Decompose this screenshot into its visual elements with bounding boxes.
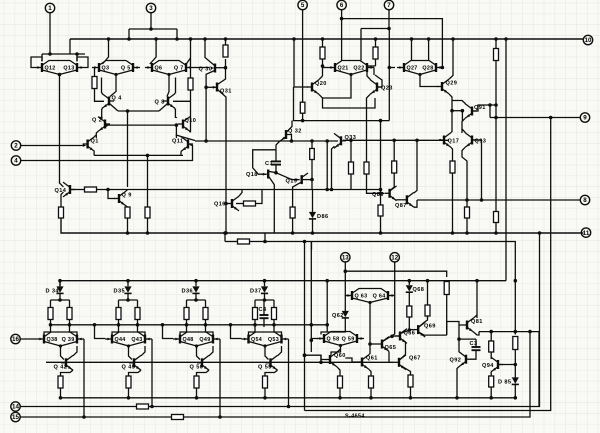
pin 7 xyxy=(384,0,393,9)
wire comp node xyxy=(459,338,476,340)
diode Q68 xyxy=(406,285,425,293)
junction R13 rail xyxy=(374,37,378,41)
wire Q2 base tie xyxy=(106,124,176,126)
resistor block3 left xyxy=(184,308,189,320)
wire C1 top xyxy=(275,150,277,161)
svg-text:Q92: Q92 xyxy=(450,357,462,363)
wire y241 line xyxy=(225,241,237,243)
resistor R4 xyxy=(85,187,97,192)
wire Q67 emitter xyxy=(400,365,411,376)
wire bus drop b2 xyxy=(95,325,106,339)
wire Q61 collector xyxy=(369,329,370,355)
transistor pair Q44 Q43 xyxy=(105,332,152,348)
svg-text:Q22: Q22 xyxy=(353,65,364,71)
junction bus r4b xyxy=(272,323,276,327)
wire R12 bottom xyxy=(322,59,324,66)
transistor Q87 xyxy=(395,192,414,209)
resistor R33 xyxy=(513,337,518,350)
svg-text:Q 30: Q 30 xyxy=(199,66,213,72)
junction block3 rail xyxy=(194,279,198,283)
junction Q10 base xyxy=(175,123,179,127)
wire Q16 emitter lead xyxy=(236,203,244,205)
svg-text:D 34: D 34 xyxy=(46,289,60,295)
svg-text:Q67: Q67 xyxy=(409,356,421,362)
svg-text:Q 42: Q 42 xyxy=(54,365,68,371)
wire Q8 outer xyxy=(174,108,177,118)
junction bus r4a xyxy=(253,323,257,327)
wire center tap drop xyxy=(127,111,129,187)
resistor R14 xyxy=(494,49,499,61)
wire Q16 collector xyxy=(239,190,242,197)
transistor Q4 xyxy=(102,94,122,109)
wire Q23 col link xyxy=(367,65,376,67)
wire R21 bottom xyxy=(380,216,382,233)
transistor Q19 xyxy=(286,173,313,207)
wire x506 drop xyxy=(505,39,507,281)
wire rail left drop xyxy=(69,39,71,54)
junction x380 y121 xyxy=(379,119,383,123)
junction R3 rail xyxy=(224,37,228,41)
transistor Q66 xyxy=(395,329,415,344)
junction y141 q32 xyxy=(290,139,294,143)
resistor block2 left xyxy=(116,308,121,320)
transistor pair Q27 Q28 xyxy=(397,61,443,77)
wire Q58 outer xyxy=(311,339,318,341)
svg-text:Q49: Q49 xyxy=(199,337,210,343)
wire Q27 col riser xyxy=(411,39,413,61)
resistor R15 xyxy=(450,161,455,173)
wire block3 split bar xyxy=(187,299,206,301)
wire Q67 collector xyxy=(400,355,406,360)
wire Q94 base xyxy=(498,364,515,366)
wire Q81 col up xyxy=(476,281,478,318)
wire Q60 base xyxy=(305,355,326,359)
resistor R32 xyxy=(489,376,494,387)
pin 8 xyxy=(580,195,589,204)
wire block2 split bar xyxy=(119,299,138,301)
wire Q63Q64 node xyxy=(369,303,371,330)
wire R16 bottom xyxy=(466,218,468,233)
pin 11 xyxy=(581,228,590,237)
wire Q11 collector out xyxy=(181,137,195,141)
wire Q66 collector xyxy=(401,330,410,333)
junction pin9 node xyxy=(494,116,498,120)
wire R13 bottom xyxy=(375,59,377,66)
transistor Q92 xyxy=(450,352,472,367)
transistor Q8 xyxy=(155,94,176,109)
resistor block3 tail xyxy=(194,376,199,388)
junction Q69 base xyxy=(408,328,412,332)
wire R14 top xyxy=(495,39,497,49)
diode D62 xyxy=(332,311,349,319)
junction R21 rail xyxy=(379,231,383,235)
wire Q69 emitter xyxy=(419,332,447,335)
transistor Q14 xyxy=(55,182,76,197)
junction R32 rail xyxy=(489,396,493,400)
wire pin2 line xyxy=(21,145,84,147)
wire Q49 base drop xyxy=(219,339,221,417)
wire Q92 collector xyxy=(458,339,460,352)
wire y190 right xyxy=(332,189,381,191)
wire Q10 emitter drop xyxy=(190,101,192,132)
wire x491 chain xyxy=(490,332,492,341)
junction Q6 top rail xyxy=(154,37,158,41)
wire block3 node down xyxy=(197,346,201,360)
junction Q39 base pin15 xyxy=(82,415,86,419)
junction Q33 line a xyxy=(392,139,396,143)
wire block3 split xyxy=(195,293,197,300)
junction x327 y189 xyxy=(325,188,329,192)
junction Q91 base node xyxy=(494,103,498,107)
wire C1 bottom xyxy=(275,166,277,173)
svg-text:Q12: Q12 xyxy=(45,65,56,71)
junction Q93 base pin8line xyxy=(480,198,484,202)
junction tail tap xyxy=(146,154,150,158)
wire Q91 base xyxy=(472,105,496,111)
wire block4 split bar xyxy=(255,299,274,301)
wire Q16 base xyxy=(226,203,227,205)
wire y280 left drop xyxy=(59,281,61,287)
junction R12 rail xyxy=(321,37,325,41)
wire Q93 col riser xyxy=(461,111,463,122)
junction Q94 base xyxy=(514,363,518,367)
junction x304 Q60 xyxy=(303,353,307,357)
svg-text:Q43: Q43 xyxy=(131,337,142,343)
resistor R8 xyxy=(145,207,150,218)
resistor R31 xyxy=(489,341,494,352)
svg-text:Q11: Q11 xyxy=(172,139,183,145)
wire x380 up xyxy=(380,121,382,205)
junction drop b4 xyxy=(229,323,233,327)
transistor Q29 xyxy=(437,79,457,94)
wire bias rail y280 xyxy=(60,280,506,282)
wire Q58Q59 node xyxy=(331,346,341,356)
wire block3 right res down xyxy=(206,320,214,335)
wire Q66 emitter xyxy=(401,339,406,355)
pin 12 xyxy=(390,253,399,262)
resistor block1 left xyxy=(48,308,53,320)
wire Q2 emitter xyxy=(96,131,98,138)
wire y241 tee b xyxy=(264,233,266,242)
resistor R27 xyxy=(425,305,430,316)
wire Q 55 emitter path xyxy=(265,370,278,376)
transistor pair Q3 Q5 xyxy=(92,61,140,77)
junction y141 a xyxy=(310,139,314,143)
svg-text:Q29: Q29 xyxy=(446,81,458,87)
transistor pair Q63 Q64 xyxy=(345,289,395,305)
svg-text:Q94: Q94 xyxy=(482,363,494,369)
wire Q17 base xyxy=(439,139,441,142)
capacitor C1 xyxy=(265,161,281,167)
junction pin13 node xyxy=(344,269,348,273)
junction q81line x515 xyxy=(514,330,518,334)
junction Q92 rail xyxy=(455,396,459,400)
wire x327 drop xyxy=(326,281,328,332)
svg-text:1: 1 xyxy=(48,5,52,12)
junction y280 x409 xyxy=(408,279,412,283)
resistor block1 right xyxy=(67,308,72,320)
wire Q23 collector xyxy=(367,66,370,80)
wire Q3Q5 node to Q4 xyxy=(110,75,116,97)
svg-text:Q23: Q23 xyxy=(381,86,393,92)
wire block1 left res down xyxy=(44,320,51,335)
wire pin4 line xyxy=(21,145,193,161)
svg-text:Q 63: Q 63 xyxy=(355,293,368,299)
wire pin6 drop xyxy=(341,10,343,61)
junction y280 x427 xyxy=(426,279,430,283)
transistor Q 42 xyxy=(54,355,74,370)
wire y120 line xyxy=(293,120,390,122)
svg-text:D 85: D 85 xyxy=(498,380,511,386)
resistor R30 xyxy=(408,375,413,387)
wire block2 split xyxy=(127,293,129,300)
svg-text:Q 7: Q 7 xyxy=(174,65,184,71)
junction block3 tail rail xyxy=(195,396,199,400)
junction pin3 right drop xyxy=(175,37,179,41)
svg-text:Q 4: Q 4 xyxy=(112,96,123,102)
junction pin14 rail11 xyxy=(538,231,542,235)
wire y141 line xyxy=(195,140,338,142)
svg-text:Q 64: Q 64 xyxy=(373,293,386,299)
wire Q94 emitter xyxy=(490,372,492,376)
wire block2 right leg xyxy=(137,300,139,308)
wire Q10 top xyxy=(175,116,177,119)
wire Q91 emitter top xyxy=(452,101,465,104)
transistor Q91 xyxy=(465,104,486,119)
junction R18 top xyxy=(349,139,353,143)
transistor pair Q38 Q 39 xyxy=(37,332,84,348)
wire R25 down xyxy=(446,295,448,336)
wire R13 top xyxy=(375,39,377,47)
transistor Q18 xyxy=(246,170,276,234)
junction y280 x515 xyxy=(514,279,518,283)
svg-text:9: 9 xyxy=(583,115,587,122)
diode D37 xyxy=(250,286,268,294)
junction R17 rail xyxy=(494,231,498,235)
transistor Q10 xyxy=(178,117,196,132)
wire Q21Q22 node drop xyxy=(323,75,352,99)
wire pin7 long drop xyxy=(388,29,390,121)
svg-text:Q87: Q87 xyxy=(395,203,407,209)
wire bias vert 205 xyxy=(205,87,207,141)
junction Q31 base xyxy=(204,86,208,90)
transistor pair Q54 Q53 xyxy=(242,332,289,348)
svg-text:3: 3 xyxy=(149,5,153,12)
wire tail drop xyxy=(147,155,149,206)
junction bus r2b xyxy=(136,323,140,327)
diode D86 xyxy=(309,212,329,220)
wire Q20 base xyxy=(294,86,308,88)
svg-text:Q65: Q65 xyxy=(385,345,397,351)
pin 14 xyxy=(11,402,20,411)
wire R8 bottom xyxy=(147,218,149,233)
wire Q22 top riser xyxy=(360,29,362,61)
wire R4 to Q9 base xyxy=(108,190,115,199)
svg-text:14: 14 xyxy=(12,404,19,411)
wire Q87 collector xyxy=(414,140,417,193)
resistor R11 xyxy=(310,149,315,160)
transistor Q31 xyxy=(206,59,232,233)
capacitor C3 xyxy=(470,341,481,350)
junction pin7 branch xyxy=(387,27,391,31)
wire y241 line2 xyxy=(250,242,516,281)
junction Q28 riser xyxy=(427,37,431,41)
junction block4 split xyxy=(263,298,267,302)
resistor R2 xyxy=(188,78,193,90)
wire Q 45 emitter path xyxy=(129,370,142,376)
wire pin6 to Q28 xyxy=(342,19,443,68)
transistor Q 50 xyxy=(190,355,210,370)
junction y141 b xyxy=(325,139,329,143)
wire Q11 collector xyxy=(176,135,181,137)
svg-text:7: 7 xyxy=(387,2,391,9)
junction x380 base line xyxy=(379,192,383,196)
wire block3 right leg xyxy=(205,300,207,308)
transistor Q33 xyxy=(334,133,356,148)
wire Q69 base xyxy=(409,329,413,331)
wire Q14 emitter xyxy=(61,192,63,206)
transistor Q17 xyxy=(439,133,459,148)
pin 4 xyxy=(11,156,20,165)
arrow Q11 base xyxy=(189,144,192,147)
wire block4 left res down xyxy=(249,320,256,335)
wire Q8 base xyxy=(173,100,191,102)
svg-text:Q54: Q54 xyxy=(251,337,262,343)
svg-text:D35: D35 xyxy=(114,289,125,295)
wire pin15 line xyxy=(20,416,171,418)
wire block2 tail down xyxy=(128,388,130,398)
junction Q3 top rail xyxy=(107,37,111,41)
junction R30 rail xyxy=(409,396,413,400)
svg-text:Q 58: Q 58 xyxy=(327,336,340,342)
junction Q93 col node xyxy=(461,109,465,113)
svg-text:Q61: Q61 xyxy=(366,356,378,362)
junction R4 node xyxy=(106,188,110,192)
diode D85 xyxy=(498,377,519,385)
svg-text:Q69: Q69 xyxy=(424,324,436,330)
junction y280 x327 xyxy=(325,279,329,283)
wire pin14 line2 xyxy=(149,233,540,407)
wire bias line y189 xyxy=(97,189,332,191)
junction x506 rail39 xyxy=(504,37,508,41)
wire R30 down xyxy=(410,387,412,398)
junction Q29 rail xyxy=(451,37,455,41)
pin 16 xyxy=(11,334,20,343)
wire pin13 drop xyxy=(344,262,346,271)
svg-text:Q1: Q1 xyxy=(91,139,99,145)
wire pin3 tee xyxy=(129,28,177,30)
wire Q4 outer xyxy=(101,108,104,118)
wire R11 top xyxy=(311,141,313,149)
junction Q29 emitter node xyxy=(450,109,454,113)
wire Q9 emitter xyxy=(126,206,128,207)
wire block2 left res down xyxy=(112,320,119,335)
transistor Q93 xyxy=(465,133,486,148)
junction bus end2 xyxy=(325,323,329,327)
junction y280 x477 xyxy=(475,279,479,283)
wire Q94 collector xyxy=(490,356,492,358)
junction R12-Q20 xyxy=(321,64,325,68)
transistor Q 45 xyxy=(122,355,142,370)
svg-text:15: 15 xyxy=(12,414,19,421)
wire Q4Q8 emitter tie xyxy=(118,110,159,112)
svg-text:Q18: Q18 xyxy=(246,172,258,178)
transistor Q1 xyxy=(83,137,99,152)
transistor Q67 xyxy=(394,355,421,370)
wire Q8 emitter up xyxy=(174,78,177,94)
resistor R26 xyxy=(407,306,412,317)
svg-text:Q44: Q44 xyxy=(115,337,126,343)
wire R12 top xyxy=(322,39,324,47)
junction block2 split xyxy=(126,298,130,302)
transistor Q11 xyxy=(172,137,193,152)
junction R10 rail xyxy=(291,231,295,235)
wire Q27Q28 node xyxy=(420,75,438,87)
wire block1 split xyxy=(59,293,61,300)
wire Q17 collector xyxy=(451,111,452,133)
wire Q19 lead xyxy=(276,173,300,180)
wire D85 down xyxy=(514,385,516,398)
wire Q43 base drop xyxy=(151,339,153,407)
junction y141 205 xyxy=(204,139,208,143)
svg-text:Q60: Q60 xyxy=(334,353,346,359)
junction pin1/emitters xyxy=(48,52,52,56)
transistor pair Q6 Q7 xyxy=(145,61,193,77)
transistor Q69 xyxy=(413,322,436,337)
svg-text:Q16: Q16 xyxy=(214,202,226,208)
resistor block4 left xyxy=(253,308,258,320)
junction R28 rail xyxy=(338,396,342,400)
diode D36 xyxy=(182,286,200,294)
wire pin12 drop xyxy=(394,262,396,296)
junction pin6 branch xyxy=(340,17,344,21)
wire Q 55 collector xyxy=(278,346,282,356)
resistor R9 xyxy=(300,102,305,113)
wire D86 top xyxy=(312,190,314,212)
wire R11 mid xyxy=(311,160,313,190)
wire block3 left res down xyxy=(180,320,187,335)
svg-text:Q 32: Q 32 xyxy=(288,129,302,135)
wire x304 line xyxy=(304,242,306,411)
wire Q30 lead xyxy=(193,67,209,69)
junction bus r2a xyxy=(117,323,121,327)
wire emitter drop A xyxy=(41,54,43,62)
wire follower line riser xyxy=(320,355,322,362)
transistor Q85 xyxy=(372,186,397,201)
junction Q81 base node xyxy=(457,337,461,341)
wire pin13 line xyxy=(345,271,446,277)
pin 2 xyxy=(11,141,20,150)
svg-text:Q13: Q13 xyxy=(63,65,74,71)
wire Q3Q5 riser xyxy=(102,39,108,64)
wire block4 right res down xyxy=(274,320,282,335)
junction Q58 outer xyxy=(310,339,314,343)
junction q81line x491 xyxy=(489,330,493,334)
wire Q39 base drop xyxy=(83,339,85,417)
pin 3 xyxy=(146,3,155,12)
wire Q17 emitter xyxy=(451,147,453,161)
wire V+ rail xyxy=(70,38,584,40)
junction Q91 base dot xyxy=(488,103,492,107)
wire R2 bottom xyxy=(190,90,192,101)
junction block3 split xyxy=(194,298,198,302)
wire Q22 outer xyxy=(373,68,375,76)
pin 10 xyxy=(583,35,592,44)
transistor Q94 xyxy=(482,357,503,372)
wire block4 tail down xyxy=(264,388,266,398)
wire block2 right res down xyxy=(138,320,146,335)
junction x380 y190 xyxy=(379,188,383,192)
